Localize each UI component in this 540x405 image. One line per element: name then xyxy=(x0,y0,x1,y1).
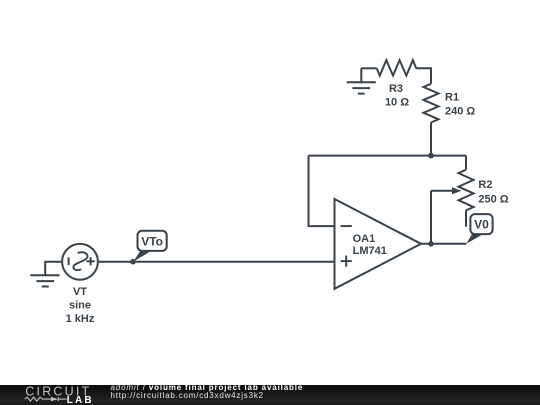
voltage source VT symbol xyxy=(62,244,98,280)
flag V0 xyxy=(466,214,492,244)
node: output junction dot xyxy=(428,241,434,247)
svg-text:sine: sine xyxy=(69,300,91,312)
footer bar xyxy=(0,385,540,405)
wire: feedback top rail xyxy=(309,155,467,157)
flag VTo xyxy=(133,231,166,262)
ground (source negative terminal) xyxy=(30,262,62,287)
CircuitLab logo xyxy=(0,385,100,405)
resistor R1 body xyxy=(424,84,439,123)
wire: wiper to output node xyxy=(430,191,432,244)
svg-text:V0: V0 xyxy=(474,218,489,232)
svg-text:R3: R3 xyxy=(389,83,403,95)
wire: top rail to R2 xyxy=(465,156,467,170)
wire: source to non-inverting input xyxy=(98,261,335,263)
op-amp OA1 xyxy=(335,199,422,289)
svg-text:240 Ω: 240 Ω xyxy=(445,106,475,118)
resistor R3 body xyxy=(377,60,416,76)
svg-text:VT: VT xyxy=(73,286,87,298)
wire: feedback left drop to inverting input xyxy=(309,156,335,227)
svg-text:1 kHz: 1 kHz xyxy=(66,313,95,325)
footer url line xyxy=(111,392,264,400)
wire: R2 bottom stub xyxy=(465,210,467,226)
svg-text:VTo: VTo xyxy=(141,234,163,248)
svg-text:LAB: LAB xyxy=(67,395,94,405)
footer caption line xyxy=(111,384,304,392)
ground (top, R3 left terminal) xyxy=(347,68,376,93)
node: VTo junction dot xyxy=(130,259,136,265)
svg-text:LM741: LM741 xyxy=(353,245,387,257)
wire: ground to R3 xyxy=(361,67,376,69)
svg-text:R1: R1 xyxy=(445,91,459,103)
potentiometer R2 body xyxy=(459,170,474,211)
wire: R3 to R1 (corner) xyxy=(416,68,431,84)
node: R1/feedback junction dot xyxy=(428,153,434,159)
R2 wiper arrow xyxy=(431,187,462,194)
wire: R1 to feedback node xyxy=(430,123,432,156)
svg-text:OA1: OA1 xyxy=(353,233,376,245)
svg-text:R2: R2 xyxy=(478,179,492,191)
svg-text:10 Ω: 10 Ω xyxy=(385,97,409,109)
wire: op-amp output xyxy=(421,243,466,245)
svg-text:250 Ω: 250 Ω xyxy=(478,194,508,206)
